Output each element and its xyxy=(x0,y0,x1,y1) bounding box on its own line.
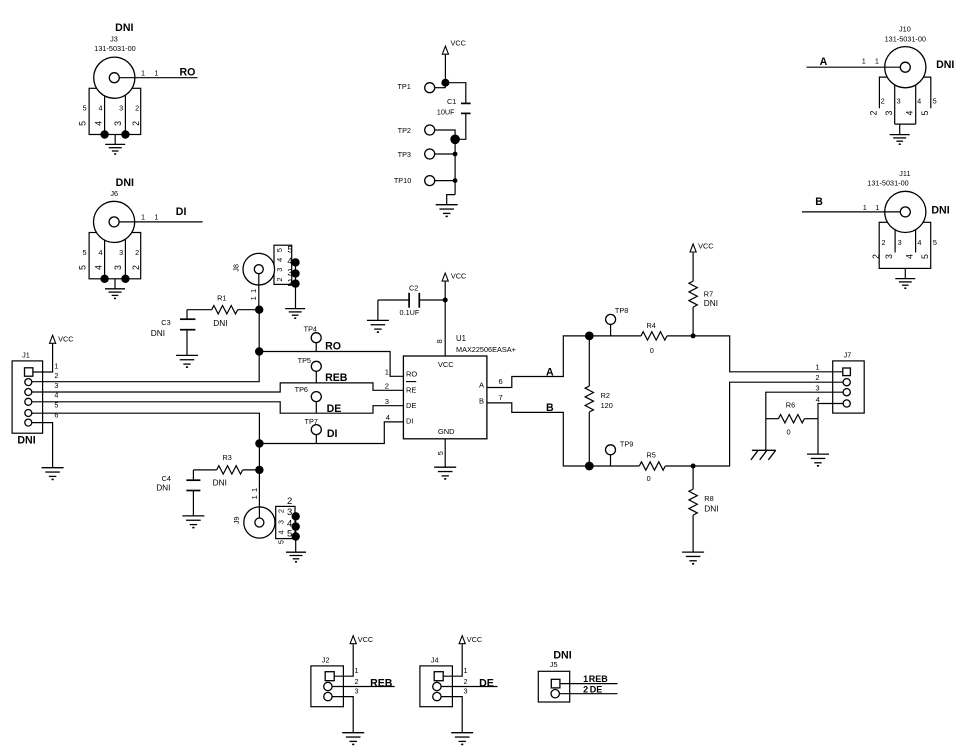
wire net A to J7 pin1 xyxy=(693,336,843,372)
svg-text:2: 2 xyxy=(354,677,358,686)
connector J7 (4-pin) xyxy=(815,350,864,413)
net label B (J11) xyxy=(815,196,823,208)
svg-text:1: 1 xyxy=(863,203,867,212)
wire net DI: J1 pin5 down to J9/R3 junction xyxy=(32,413,260,470)
connector J11 (BNC 131-5031-00, DNI) xyxy=(802,169,950,268)
svg-text:DNI: DNI xyxy=(931,204,949,216)
svg-text:3: 3 xyxy=(119,104,123,113)
svg-text:2: 2 xyxy=(135,104,139,113)
node junction R3/J9 (DI) xyxy=(255,466,263,474)
svg-text:A: A xyxy=(479,381,484,390)
connector J9 (BNC, rotated) with shield pins xyxy=(232,470,300,552)
svg-text:3: 3 xyxy=(897,97,901,106)
test point TP6 xyxy=(295,385,322,413)
svg-text:2: 2 xyxy=(131,121,141,126)
svg-text:5: 5 xyxy=(82,248,86,257)
svg-text:0: 0 xyxy=(787,427,791,436)
connector J2 (3-pin header, REB) xyxy=(311,655,359,706)
wire J7 pin4 to R6 right xyxy=(818,404,843,419)
svg-text:DNI: DNI xyxy=(116,177,134,189)
svg-text:TP1: TP1 xyxy=(397,82,410,91)
wire net DI to U1 pin4 xyxy=(259,422,403,444)
svg-text:6: 6 xyxy=(499,377,503,386)
wire net B: U1 pin7 to R5/R2 junction xyxy=(487,403,589,466)
svg-text:J6: J6 xyxy=(110,189,118,198)
svg-text:5: 5 xyxy=(933,97,937,106)
svg-text:C2: C2 xyxy=(409,283,418,292)
wire R6 left to chassis xyxy=(765,419,767,451)
svg-text:DE: DE xyxy=(327,403,342,415)
svg-text:5: 5 xyxy=(82,104,86,113)
svg-text:1: 1 xyxy=(141,68,145,77)
svg-text:U1: U1 xyxy=(456,334,466,343)
ground (U1 GND) xyxy=(434,467,456,479)
svg-text:2: 2 xyxy=(881,97,885,106)
svg-text:RO: RO xyxy=(180,66,196,78)
wire J2 pin2 (REB) xyxy=(332,686,395,688)
svg-text:J2: J2 xyxy=(322,655,330,664)
wire net REB: J1 pin3 to U1 RE xyxy=(32,383,404,392)
svg-text:J1: J1 xyxy=(22,350,30,359)
svg-text:1: 1 xyxy=(875,57,879,66)
svg-text:DE: DE xyxy=(479,677,494,689)
svg-text:2: 2 xyxy=(277,509,286,513)
ground (R8) xyxy=(682,552,704,564)
ground (J10 shield) xyxy=(890,124,910,144)
svg-text:5: 5 xyxy=(933,238,937,247)
ground (J8 shield) xyxy=(285,309,305,319)
svg-text:3: 3 xyxy=(275,268,284,272)
svg-text:3: 3 xyxy=(113,121,123,126)
connector J5 (2-pin, DNI) xyxy=(538,650,571,702)
svg-text:TP2: TP2 xyxy=(398,126,411,135)
svg-text:2: 2 xyxy=(287,496,292,507)
svg-text:DI: DI xyxy=(406,416,414,425)
svg-text:3: 3 xyxy=(898,238,902,247)
node junction A (R2 top) xyxy=(585,332,594,341)
svg-text:4: 4 xyxy=(386,413,390,422)
svg-text:2: 2 xyxy=(54,371,58,380)
svg-text:2: 2 xyxy=(385,382,389,391)
wire J5 pin1 (REB) xyxy=(560,674,618,684)
svg-text:VCC: VCC xyxy=(698,241,713,250)
svg-text:8: 8 xyxy=(435,339,444,343)
resistor R2 120 (termination) xyxy=(585,336,613,466)
test point TP3 xyxy=(398,149,458,159)
svg-text:J7: J7 xyxy=(844,350,852,359)
svg-text:R4: R4 xyxy=(647,321,656,330)
svg-text:3: 3 xyxy=(884,254,894,259)
wire U1 GND pin to ground xyxy=(444,439,446,467)
svg-text:1: 1 xyxy=(875,203,879,212)
wire net DE: J1 pin4 to U1 DE xyxy=(32,402,404,413)
svg-text:3: 3 xyxy=(815,384,819,393)
capacitor C4 (DNI) xyxy=(156,470,200,516)
test point TP10 xyxy=(394,176,458,186)
net label REB xyxy=(325,372,348,384)
svg-text:DNI: DNI xyxy=(156,482,170,492)
svg-text:1: 1 xyxy=(354,666,358,675)
svg-text:131-5031-00: 131-5031-00 xyxy=(885,35,926,44)
net label B xyxy=(546,402,554,414)
svg-text:RE: RE xyxy=(406,386,416,395)
svg-text:DE: DE xyxy=(406,401,416,410)
svg-text:R3: R3 xyxy=(223,453,232,462)
capacitor C2 0.1UF xyxy=(378,283,445,320)
power symbol VCC (R7) xyxy=(690,241,714,252)
svg-text:4: 4 xyxy=(905,254,915,259)
node junction R4/R7 xyxy=(691,333,696,338)
svg-text:1: 1 xyxy=(463,666,467,675)
svg-text:5: 5 xyxy=(436,451,445,455)
svg-text:A: A xyxy=(820,56,828,68)
svg-text:J8: J8 xyxy=(231,264,240,272)
net label REB xyxy=(370,677,393,689)
svg-text:131-5031-00: 131-5031-00 xyxy=(94,44,135,53)
wire J2 pin3 to ground xyxy=(332,697,353,733)
svg-text:5: 5 xyxy=(920,254,930,259)
test point TP8 xyxy=(606,306,629,336)
node junction B (R2 bottom) xyxy=(585,462,594,471)
capacitor C3 (DNI) xyxy=(151,310,196,356)
svg-text:VCC: VCC xyxy=(451,39,466,48)
test point TP2 xyxy=(398,125,455,139)
connector J8 (BNC, rotated) with shield pins xyxy=(231,245,299,310)
svg-text:J11: J11 xyxy=(899,169,910,178)
svg-text:2: 2 xyxy=(881,238,885,247)
svg-text:1: 1 xyxy=(141,213,145,222)
node junction R5/R8 xyxy=(691,464,696,469)
power symbol VCC (top) xyxy=(442,39,466,88)
net label RO (U1 input) xyxy=(325,341,341,353)
node junction RO wire xyxy=(255,347,263,355)
node VCC junction above C1 xyxy=(441,79,449,87)
svg-text:REB: REB xyxy=(370,677,393,689)
svg-text:TP6: TP6 xyxy=(295,385,308,394)
svg-text:VCC: VCC xyxy=(451,271,466,280)
svg-text:VCC: VCC xyxy=(358,635,373,644)
test point TP4 xyxy=(304,324,322,351)
svg-text:3: 3 xyxy=(113,265,123,270)
chassis ground (R6/J7 pin3) xyxy=(751,450,776,460)
svg-text:1: 1 xyxy=(250,488,259,492)
node junction R1/J8 (RO) xyxy=(255,306,263,314)
svg-text:REB: REB xyxy=(589,674,609,684)
svg-text:DI: DI xyxy=(176,206,187,218)
svg-text:RO: RO xyxy=(325,341,341,353)
svg-text:MAX22506EASA+: MAX22506EASA+ xyxy=(456,345,516,354)
svg-text:5: 5 xyxy=(277,540,286,544)
svg-text:0: 0 xyxy=(650,346,654,355)
svg-text:4: 4 xyxy=(277,530,286,534)
ground (C4) xyxy=(182,516,204,528)
svg-text:3: 3 xyxy=(385,397,389,406)
ground (J1 pin6) xyxy=(42,468,64,480)
node junction DI wire xyxy=(255,439,263,447)
svg-text:J10: J10 xyxy=(899,24,911,33)
svg-text:TP10: TP10 xyxy=(394,176,411,185)
svg-text:R2: R2 xyxy=(601,391,610,400)
wire J1 pin6 to ground xyxy=(32,423,53,468)
svg-text:TP8: TP8 xyxy=(615,306,628,315)
svg-text:RO: RO xyxy=(406,370,417,379)
svg-text:J5: J5 xyxy=(550,660,558,669)
test point TP7 xyxy=(305,417,322,443)
power symbol VCC (J1 pin1) xyxy=(33,334,74,372)
net label DI (J6) xyxy=(176,206,187,218)
svg-text:5: 5 xyxy=(920,110,930,115)
svg-text:DNI: DNI xyxy=(704,298,718,308)
node junction TP2/C1 xyxy=(450,135,460,145)
power symbol VCC (U1 pin8) xyxy=(442,271,466,356)
IC U1 MAX22506EASA+ xyxy=(385,334,516,455)
svg-text:10UF: 10UF xyxy=(437,108,455,117)
net label DI (U1 input) xyxy=(327,428,338,440)
net label A (J10) xyxy=(820,56,828,68)
ground (R6/J7 pin4) xyxy=(807,454,829,466)
svg-text:4: 4 xyxy=(904,110,914,115)
svg-text:3: 3 xyxy=(119,248,123,257)
wire net A: U1 pin6 to R4/R2 junction xyxy=(487,336,589,388)
ground (J9 shield) xyxy=(286,552,306,562)
svg-text:6: 6 xyxy=(54,411,58,420)
connector J10 (BNC 131-5031-00, DNI) xyxy=(807,24,955,124)
svg-text:R8: R8 xyxy=(704,494,713,503)
wire R6 right to ground xyxy=(817,419,819,454)
test point TP9 xyxy=(606,439,634,466)
svg-text:1: 1 xyxy=(815,362,819,371)
svg-text:B: B xyxy=(546,402,554,414)
test point TP5 xyxy=(298,356,322,383)
wire J5 pin2 (DE) xyxy=(559,684,617,694)
connector J1 (6-pin, DNI) xyxy=(12,350,58,446)
svg-text:4: 4 xyxy=(98,248,102,257)
svg-text:TP4: TP4 xyxy=(304,324,317,333)
wire net RO: J1 pin2 to junction xyxy=(32,310,260,382)
svg-text:2: 2 xyxy=(131,265,141,270)
ground (C2) xyxy=(367,320,389,332)
net label A xyxy=(546,367,554,379)
svg-text:C1: C1 xyxy=(447,97,456,106)
svg-text:2: 2 xyxy=(869,110,879,115)
svg-text:5: 5 xyxy=(287,245,292,256)
wire TP chain vertical xyxy=(454,139,456,194)
resistor R4 0 xyxy=(589,321,693,355)
net label RO (J3) xyxy=(180,66,196,78)
resistor R3 (DNI) xyxy=(193,453,259,488)
svg-text:J3: J3 xyxy=(110,35,118,44)
ground (C3) xyxy=(176,355,198,367)
connector J6 (BNC, DNI) with shield pins xyxy=(78,177,203,283)
svg-text:DNI: DNI xyxy=(704,503,718,513)
svg-text:4: 4 xyxy=(816,395,820,404)
wire J4 pin2 (DE) xyxy=(441,686,497,688)
resistor R7 (DNI, pullup) xyxy=(689,253,718,336)
svg-text:3: 3 xyxy=(287,507,292,518)
svg-text:GND: GND xyxy=(438,427,455,436)
svg-text:1: 1 xyxy=(250,495,259,499)
svg-text:DI: DI xyxy=(327,428,338,440)
svg-text:DNI: DNI xyxy=(17,435,35,447)
connector J3 (BNC 131-5031-00, DNI) with shield pins xyxy=(78,22,198,139)
svg-text:1: 1 xyxy=(54,362,58,371)
ground (J2 pin3) xyxy=(342,733,364,745)
ground (J6 shield) xyxy=(105,279,125,299)
net label DE xyxy=(479,677,494,689)
svg-text:2: 2 xyxy=(583,684,588,694)
connector J4 (3-pin header, DE) xyxy=(420,655,468,706)
svg-text:REB: REB xyxy=(325,372,348,384)
svg-text:5: 5 xyxy=(78,121,88,126)
svg-text:0: 0 xyxy=(647,474,651,483)
svg-text:VCC: VCC xyxy=(438,360,454,369)
svg-text:5: 5 xyxy=(275,248,284,252)
ground (J4 pin3) xyxy=(451,733,473,745)
svg-text:3: 3 xyxy=(277,520,286,524)
svg-text:2: 2 xyxy=(871,254,881,259)
svg-text:VCC: VCC xyxy=(58,334,73,343)
svg-text:4: 4 xyxy=(917,238,921,247)
svg-text:4: 4 xyxy=(94,265,104,270)
svg-text:4: 4 xyxy=(917,97,921,106)
svg-text:B: B xyxy=(815,196,823,208)
svg-text:1: 1 xyxy=(385,367,389,376)
wire J7 pin3 to R6 left xyxy=(766,392,843,419)
svg-text:C3: C3 xyxy=(161,318,170,327)
net label DE xyxy=(327,403,342,415)
svg-text:1: 1 xyxy=(249,289,258,293)
svg-text:R5: R5 xyxy=(647,451,656,460)
svg-text:DNI: DNI xyxy=(151,328,165,338)
svg-text:B: B xyxy=(479,396,484,405)
svg-text:2: 2 xyxy=(815,373,819,382)
svg-text:120: 120 xyxy=(601,401,613,410)
resistor R6 0 xyxy=(766,401,818,437)
svg-text:5: 5 xyxy=(78,265,88,270)
svg-text:1: 1 xyxy=(154,68,158,77)
svg-text:1: 1 xyxy=(249,296,258,300)
svg-text:2: 2 xyxy=(135,248,139,257)
power symbol VCC (J2 pin1) xyxy=(334,635,373,676)
power symbol VCC (J4 pin1) xyxy=(443,635,482,676)
svg-text:VCC: VCC xyxy=(467,635,482,644)
svg-text:2: 2 xyxy=(275,277,284,281)
resistor R8 (DNI, pulldown) xyxy=(689,466,719,552)
ground (J3 shield) xyxy=(105,135,125,155)
svg-text:DNI: DNI xyxy=(115,22,133,34)
svg-text:DNI: DNI xyxy=(936,59,954,71)
svg-text:1: 1 xyxy=(154,213,158,222)
svg-text:TP9: TP9 xyxy=(620,439,633,448)
svg-text:DE: DE xyxy=(590,684,603,694)
svg-text:131-5031-00: 131-5031-00 xyxy=(867,178,908,187)
svg-text:TP5: TP5 xyxy=(298,356,311,365)
svg-text:4: 4 xyxy=(98,104,102,113)
svg-text:4: 4 xyxy=(94,121,104,126)
svg-text:1: 1 xyxy=(583,674,588,684)
svg-text:A: A xyxy=(546,367,554,379)
svg-text:TP3: TP3 xyxy=(398,150,411,159)
svg-text:3: 3 xyxy=(884,110,894,115)
svg-text:0.1UF: 0.1UF xyxy=(400,308,420,317)
ground (J11 shield) xyxy=(895,268,915,288)
ground (TP chain) xyxy=(436,195,458,217)
wire J4 pin3 to ground xyxy=(441,697,462,733)
svg-text:1: 1 xyxy=(862,57,866,66)
resistor R5 0 xyxy=(589,451,693,484)
svg-text:DNI: DNI xyxy=(213,318,227,328)
svg-text:R6: R6 xyxy=(786,401,795,410)
svg-text:7: 7 xyxy=(499,393,503,402)
test point TP1 xyxy=(397,82,445,93)
svg-text:3: 3 xyxy=(463,687,467,696)
svg-text:5: 5 xyxy=(287,528,292,539)
svg-text:J4: J4 xyxy=(431,655,439,664)
wire net RO to U1 pin1 xyxy=(259,352,403,377)
capacitor C1 10UF xyxy=(437,83,471,140)
svg-text:DNI: DNI xyxy=(213,478,227,488)
svg-text:4: 4 xyxy=(275,258,284,262)
wire net B to J7 pin2 xyxy=(693,382,843,466)
svg-text:2: 2 xyxy=(463,677,467,686)
resistor R1 (DNI) xyxy=(187,294,259,328)
svg-text:J9: J9 xyxy=(232,517,241,525)
node junction VCC/C2 xyxy=(443,298,448,303)
svg-text:3: 3 xyxy=(354,687,358,696)
svg-text:R1: R1 xyxy=(217,294,226,303)
